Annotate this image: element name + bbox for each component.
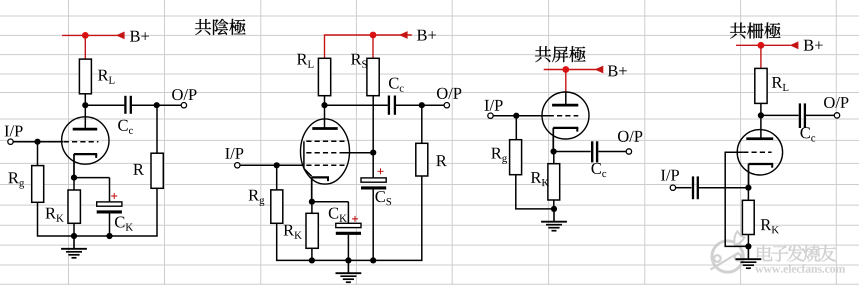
junction node on B+ (circuit 3)	[562, 66, 569, 73]
wire cathode node to R_K (circuit 4)	[747, 188, 749, 201]
wire R_g to bottom rail (circuit 1)	[37, 202, 39, 236]
wire R_K to bottom rail (circuit 2)	[311, 248, 313, 260]
node C_K/ground junction (circuit 2)	[345, 257, 351, 263]
U1 grid dashed electrode (circuit 1)	[64, 141, 99, 143]
wire I/P to grid (circuit 3)	[493, 115, 549, 117]
U2 screen lead to node (circuit 2)	[345, 152, 374, 154]
label C_c (circuit 3)	[591, 163, 606, 177]
node anode/output junction (circuit 2)	[321, 102, 327, 108]
terminal I/P (circuit 2)	[235, 163, 240, 168]
wire R_K to bottom rail (circuit 1)	[73, 223, 75, 236]
polarity + of C_S (circuit 2)	[377, 168, 383, 174]
label C_c (circuit 1)	[118, 120, 133, 134]
B+ arrow (circuit 1)	[116, 32, 125, 40]
wire R_S down to screen node (circuit 2)	[372, 96, 374, 153]
label B+ (circuit 1)	[130, 31, 149, 42]
label B+ (circuit 3)	[608, 65, 627, 76]
junction node on B+ (circuit 1)	[82, 32, 89, 39]
wire output node down to R (circuit 2)	[421, 105, 423, 143]
label I/P (circuit 3)	[485, 100, 503, 111]
wire anode node to C_c (circuit 1)	[85, 104, 124, 106]
capacitor C_c (circuit 1)	[125, 96, 130, 114]
title: 共柵極 (common grid)	[730, 22, 781, 38]
node output junction (circuit 2)	[419, 102, 425, 108]
node ground junction (circuit 3)	[551, 206, 557, 212]
label B+ (circuit 2)	[417, 30, 436, 41]
node cathode junction (circuit 3)	[551, 148, 557, 154]
wire R_g down and to ground node (circuit 3)	[516, 175, 554, 209]
U4 anode lead (circuit 4)	[760, 115, 762, 138]
U3 cathode bar (circuit 3)	[553, 128, 578, 132]
capacitor C_K electrolytic (circuit 1)	[97, 202, 122, 212]
resistor R_K (circuit 3)	[548, 164, 560, 200]
wire R_g to bottom rail (circuit 2)	[276, 223, 278, 261]
terminal I/P (circuit 1)	[8, 139, 13, 144]
U3 grid dashed electrode (circuit 3)	[549, 115, 579, 117]
resistor R_g (circuit 1)	[32, 166, 44, 203]
wire C_K to bottom rail (circuit 1)	[109, 213, 111, 236]
B+ arrow (circuit 4)	[790, 41, 799, 49]
capacitor C_c (circuit 2)	[389, 96, 395, 115]
ground (circuit 4)	[736, 246, 762, 268]
wire C_c to O/P (circuit 1)	[132, 104, 181, 106]
label I/P (circuit 1)	[5, 126, 23, 137]
wire anode node to C_c (circuit 4)	[761, 114, 799, 116]
wire B+ to R_L (circuit 1)	[84, 35, 86, 59]
label O/P (circuit 4)	[824, 97, 848, 108]
wire input cap to cathode node (circuit 4)	[699, 187, 749, 189]
label I/P (circuit 4)	[661, 170, 679, 181]
wire C_K to bottom rail (circuit 2)	[347, 235, 349, 261]
node input junction (circuit 3)	[513, 113, 519, 119]
U2 anode plate bar (circuit 2)	[312, 127, 337, 130]
label C_K (circuit 2)	[329, 208, 347, 222]
node output junction (circuit 1)	[154, 102, 160, 108]
label B+ (circuit 4)	[804, 40, 823, 51]
U4 grid dashed electrode (circuit 4)	[743, 151, 771, 153]
node ground junction (circuit 4)	[745, 243, 751, 249]
capacitor C_S electrolytic (circuit 2)	[361, 178, 386, 188]
node input junction (circuit 2)	[274, 162, 280, 168]
label R_g (circuit 3)	[491, 148, 507, 164]
label O/P (circuit 2)	[437, 88, 461, 99]
U2 cathode lead (circuit 2)	[311, 177, 313, 202]
node cathode/input junction (circuit 4)	[745, 185, 751, 191]
U2 suppressor grid dashed (circuit 2)	[306, 140, 344, 142]
net B+ rail (circuit 3): red supply wire	[544, 69, 602, 71]
pentode U2 envelope ellipse (circuit 2)	[301, 119, 350, 184]
U2 control grid dashed (circuit 2)	[306, 164, 344, 166]
net B+ rail (circuit 1): red supply wire	[62, 34, 122, 36]
label R_L (circuit 2)	[297, 54, 313, 68]
U1 cathode bar (circuit 1)	[74, 154, 97, 158]
U2 anode lead (circuit 2)	[324, 105, 326, 128]
resistor R_L (circuit 2)	[318, 58, 330, 95]
U1 anode plate bar (circuit 1)	[73, 128, 98, 131]
label C_S (circuit 2)	[375, 191, 391, 205]
B+ arrow (circuit 2)	[399, 31, 408, 39]
terminal O/P (circuit 3)	[626, 149, 631, 154]
wire C_c to O/P (circuit 4)	[806, 114, 834, 116]
resistor R_K (circuit 2)	[306, 213, 318, 248]
node screen/R_S/C_S junction (circuit 2)	[370, 150, 376, 156]
capacitor C_c (circuit 4)	[800, 103, 805, 128]
polarity + of C_K (circuit 1)	[111, 193, 117, 199]
node cathode junction (circuit 1)	[71, 175, 77, 181]
wire screen node to C_S (circuit 2)	[372, 153, 374, 178]
bottom rail wire (circuit 2)	[277, 259, 422, 261]
wire cathode to C_K branch (circuit 1)	[74, 178, 110, 202]
label O/P (circuit 3)	[618, 131, 642, 142]
wire C_c to O/P (circuit 2)	[396, 104, 444, 106]
terminal I/P (circuit 4)	[670, 185, 675, 190]
resistor R_L (circuit 1)	[79, 59, 91, 94]
terminal O/P (circuit 2)	[444, 103, 449, 108]
wire B+ node to R_S (circuit 2)	[372, 35, 374, 58]
U2 cathode bar (circuit 2)	[312, 177, 329, 181]
B+ arrow (circuit 3)	[595, 66, 604, 74]
wire input node to R_g (circuit 2)	[276, 165, 278, 190]
title: 共屏極 (common plate / cathode follower)	[535, 46, 586, 62]
junction node on B+ (circuit 4)	[758, 42, 765, 49]
terminal O/P (circuit 4)	[834, 113, 839, 118]
wire R_L to anode node (circuit 4)	[760, 103, 762, 115]
triode U1 envelope (circuit 1)	[62, 117, 109, 164]
resistor R_S (circuit 2)	[367, 58, 379, 95]
bottom rail wire (circuit 1)	[37, 235, 158, 237]
resistor R_L (circuit 4)	[755, 68, 767, 103]
resistor R (circuit 1)	[151, 153, 163, 188]
wire C_c to O/P (circuit 3)	[598, 151, 626, 153]
node C_S bottom junction (circuit 2)	[370, 257, 376, 263]
wire input node to R_g (circuit 3)	[515, 116, 517, 140]
node cathode junction (circuit 2)	[309, 199, 315, 205]
net B+ rail (circuit 2): red supply wire with corner	[325, 35, 412, 58]
label R_L (circuit 1)	[98, 70, 114, 84]
terminal O/P (circuit 1)	[181, 103, 186, 108]
junction node on B+ above R_S (circuit 2)	[370, 32, 377, 39]
capacitor C_c (circuit 3)	[592, 141, 597, 162]
U2 suppressor tie to cathode (circuit 2)	[304, 141, 312, 176]
resistor R_K (circuit 1)	[68, 190, 80, 223]
wire cathode node to R_K (circuit 3)	[553, 152, 555, 164]
wire I/P to grid (circuit 1)	[13, 141, 63, 143]
node anode/output junction (circuit 1)	[82, 102, 88, 108]
wire output node down to R (circuit 1)	[156, 105, 158, 153]
wire cathode node to C_K (circuit 2)	[312, 202, 349, 224]
label R (circuit 2)	[436, 155, 447, 166]
label R_K (circuit 2)	[284, 225, 302, 239]
polarity + of C_K (circuit 2)	[352, 216, 358, 222]
resistor R_g (circuit 2)	[271, 190, 283, 223]
label R_L (circuit 4)	[772, 77, 788, 91]
U3 anode plate bar (circuit 3)	[552, 104, 578, 107]
input coupling capacitor (circuit 4)	[693, 176, 698, 199]
wire anode node to C_c (circuit 2)	[325, 104, 388, 106]
label R_K (circuit 1)	[45, 208, 63, 222]
U1 anode lead (circuit 1)	[84, 105, 86, 129]
label C_K (circuit 1)	[115, 216, 133, 230]
wire grid to grounded rail (circuit 4)	[725, 152, 745, 246]
node input junction (circuit 1)	[34, 139, 40, 145]
U4 anode plate bar (circuit 4)	[746, 137, 773, 140]
wire B+ to anode, red part (circuit 3)	[565, 70, 567, 93]
wire cathode node to R_K (circuit 2)	[311, 202, 313, 214]
node R_K bottom junction (circuit 2)	[309, 257, 315, 263]
net B+ rail (circuit 4): red supply wire	[736, 44, 791, 46]
node anode/output junction (circuit 4)	[758, 112, 764, 118]
wire R_L to anode node (circuit 1)	[84, 94, 86, 105]
label R_g (circuit 2)	[249, 190, 265, 206]
label C_c (circuit 2)	[389, 78, 404, 92]
resistor R_g (circuit 3)	[510, 140, 522, 175]
wire C_S to bottom rail (circuit 2)	[372, 190, 374, 261]
resistor R (circuit 2)	[416, 143, 428, 176]
label R (circuit 1)	[133, 164, 144, 175]
title: 共陰極 (common cathode)	[195, 19, 246, 35]
node R_K bottom junction (circuit 1)	[71, 233, 77, 239]
ground (circuit 1)	[61, 236, 87, 258]
wire R_K to ground node (circuit 3)	[553, 200, 555, 209]
wire R to bottom rail (circuit 1)	[156, 188, 158, 236]
wire cathode to C_c (circuit 3)	[554, 151, 591, 153]
ground (circuit 2)	[336, 260, 362, 282]
ground (circuit 3)	[541, 209, 567, 231]
wire R to bottom rail (circuit 2)	[421, 176, 423, 261]
U1 cathode lead (circuit 1)	[73, 154, 75, 178]
wire input node to R_g (circuit 1)	[37, 142, 39, 166]
capacitor C_K electrolytic (circuit 2)	[336, 223, 361, 233]
label R_S (circuit 2)	[351, 54, 367, 68]
wire cathode node to R_K (circuit 1)	[73, 178, 75, 190]
label O/P (circuit 1)	[172, 89, 196, 100]
triode U4 envelope (circuit 4)	[737, 130, 782, 175]
U4 cathode lead (circuit 4)	[748, 164, 750, 188]
wire R_L to anode node (circuit 2)	[324, 96, 326, 106]
terminal I/P (circuit 3)	[488, 113, 493, 118]
wire B+ to R_L (circuit 4)	[760, 45, 762, 68]
node C_K bottom junction (circuit 1)	[106, 233, 112, 239]
wire I/P to input cap (circuit 4)	[676, 187, 692, 189]
wire anode lead black part (circuit 3)	[565, 92, 567, 105]
resistor R_K (circuit 4)	[742, 200, 754, 234]
U4 cathode bar (circuit 4)	[749, 164, 774, 168]
label R_K (circuit 4)	[761, 219, 779, 233]
label R_g (circuit 1)	[8, 172, 24, 188]
wire R_K to ground node (circuit 4)	[747, 235, 749, 247]
U3 cathode lead (circuit 3)	[552, 128, 554, 152]
label C_c (circuit 4)	[800, 127, 815, 141]
triode U3 envelope (circuit 3)	[542, 92, 589, 139]
label I/P (circuit 2)	[225, 148, 243, 159]
label R_K (circuit 3)	[531, 172, 549, 186]
wire I/P to control grid (circuit 2)	[240, 164, 304, 166]
U2 screen grid dashed (circuit 2)	[306, 152, 344, 154]
